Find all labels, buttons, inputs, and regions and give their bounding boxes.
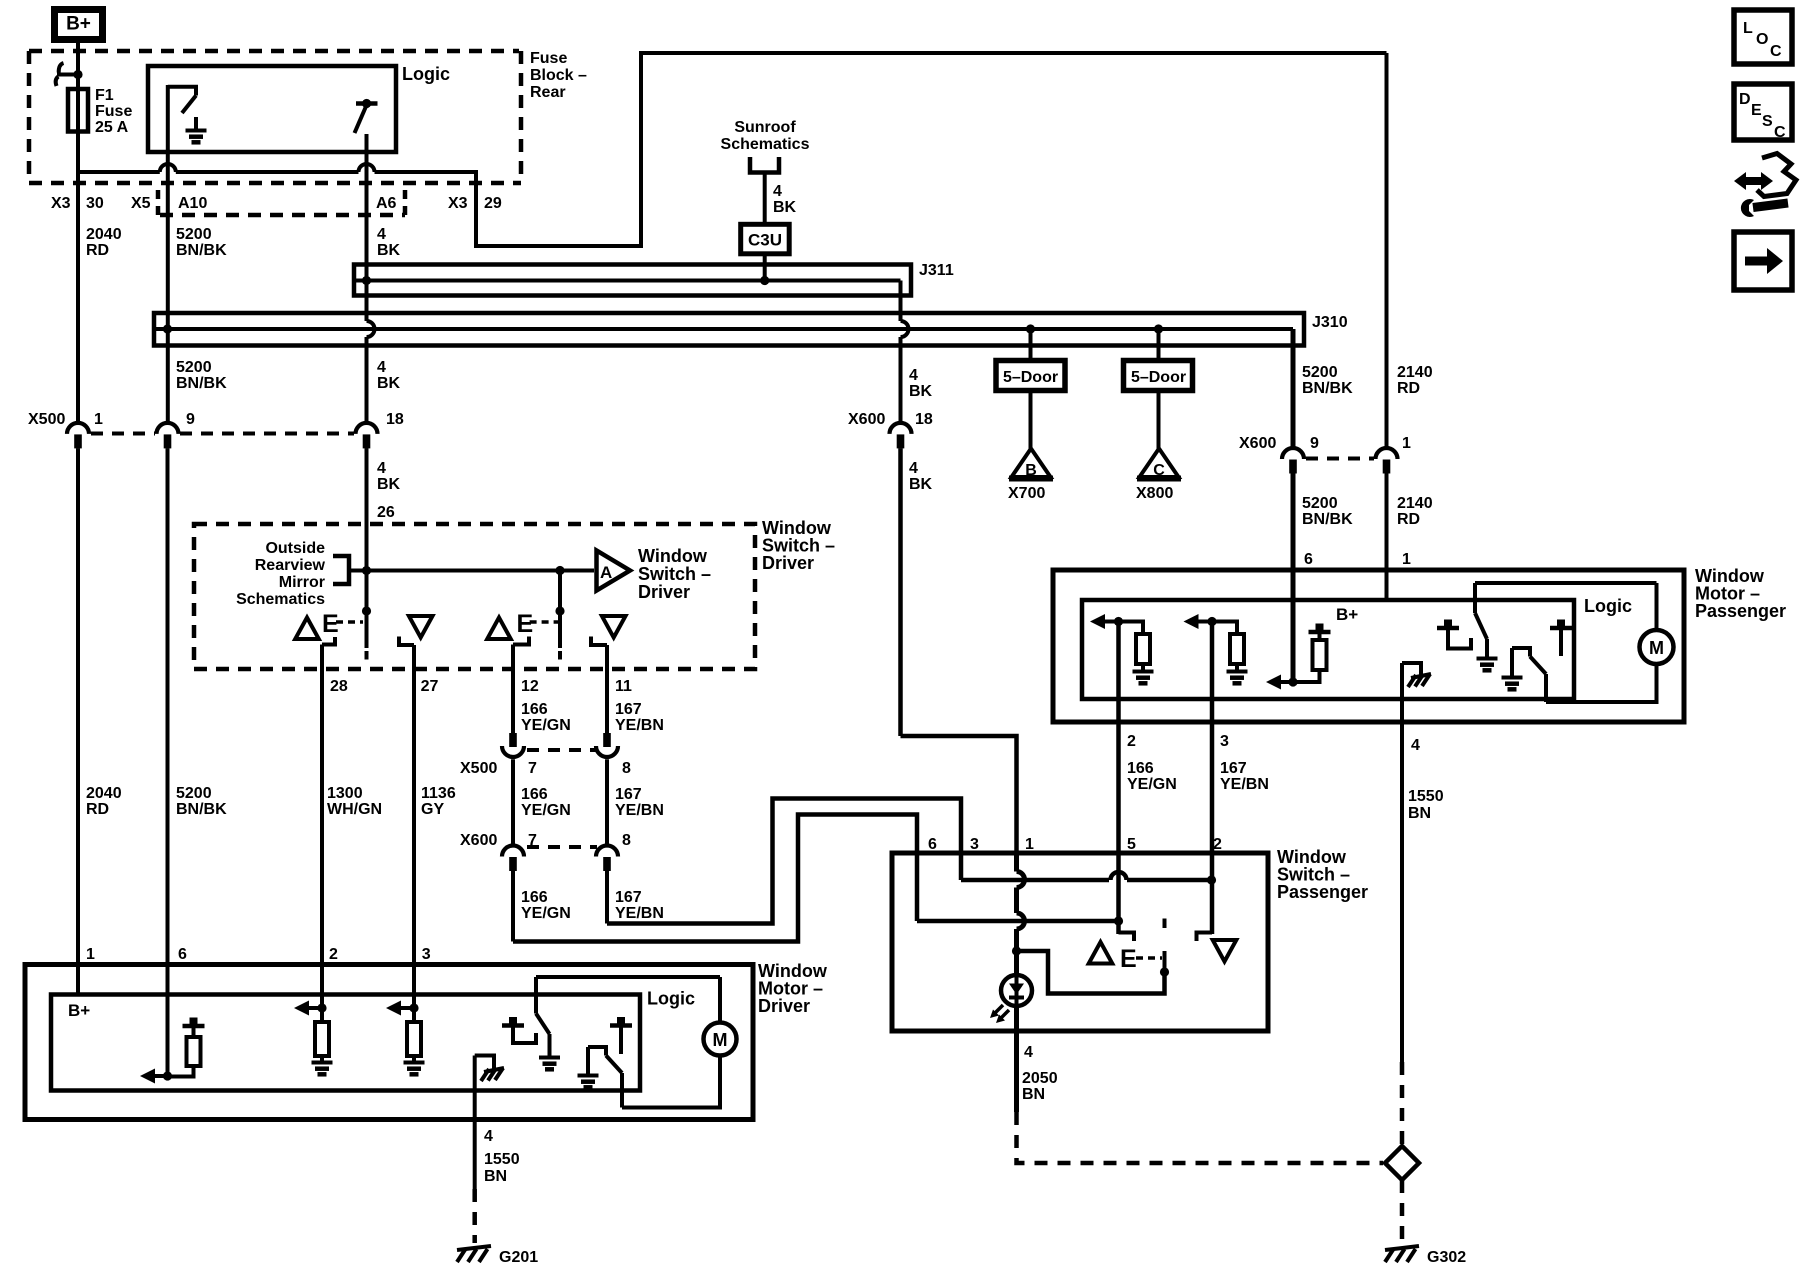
- svg-text:C: C: [1774, 124, 1786, 141]
- svg-text:Logic: Logic: [402, 64, 450, 84]
- svg-text:X500: X500: [28, 411, 65, 428]
- svg-text:2140: 2140: [1397, 495, 1433, 512]
- svg-text:166: 166: [521, 786, 548, 803]
- svg-text:Logic: Logic: [647, 989, 695, 1009]
- svg-text:BN/BK: BN/BK: [176, 801, 227, 818]
- svg-text:9: 9: [1310, 435, 1319, 452]
- svg-text:26: 26: [377, 504, 395, 521]
- svg-text:BN/BK: BN/BK: [176, 242, 227, 259]
- svg-text:3: 3: [970, 836, 979, 853]
- svg-text:6: 6: [928, 836, 937, 853]
- svg-text:2: 2: [1213, 836, 1222, 853]
- svg-text:E: E: [322, 610, 339, 638]
- svg-text:5200: 5200: [176, 226, 212, 243]
- svg-text:1550: 1550: [1408, 788, 1444, 805]
- svg-text:Passenger: Passenger: [1277, 882, 1368, 902]
- svg-text:A10: A10: [178, 195, 207, 212]
- svg-text:1: 1: [86, 946, 95, 963]
- svg-text:O: O: [1756, 31, 1768, 48]
- svg-text:166: 166: [1127, 760, 1154, 777]
- svg-text:166: 166: [521, 701, 548, 718]
- svg-text:YE/BN: YE/BN: [1220, 776, 1269, 793]
- svg-text:RD: RD: [1397, 511, 1420, 528]
- svg-text:X600: X600: [1239, 435, 1276, 452]
- svg-text:GY: GY: [421, 801, 444, 818]
- svg-text:J310: J310: [1312, 314, 1348, 331]
- svg-text:YE/GN: YE/GN: [521, 905, 571, 922]
- svg-text:Window: Window: [638, 546, 708, 566]
- svg-text:6: 6: [178, 946, 187, 963]
- svg-text:BK: BK: [909, 383, 933, 400]
- svg-text:Rear: Rear: [530, 84, 566, 101]
- svg-text:Driver: Driver: [762, 553, 814, 573]
- svg-text:YE/GN: YE/GN: [521, 802, 571, 819]
- svg-text:BN/BK: BN/BK: [1302, 380, 1353, 397]
- svg-text:8: 8: [622, 760, 631, 777]
- svg-text:Driver: Driver: [638, 582, 690, 602]
- svg-text:A6: A6: [376, 195, 397, 212]
- svg-text:1300: 1300: [327, 785, 363, 802]
- svg-text:X600: X600: [460, 832, 497, 849]
- svg-text:Driver: Driver: [758, 996, 810, 1016]
- svg-text:4: 4: [773, 183, 782, 200]
- svg-text:S: S: [1762, 113, 1773, 130]
- svg-text:BK: BK: [773, 199, 797, 216]
- svg-text:B+: B+: [68, 1001, 90, 1020]
- svg-text:8: 8: [622, 832, 631, 849]
- svg-text:4: 4: [377, 226, 386, 243]
- svg-text:5200: 5200: [176, 359, 212, 376]
- svg-text:166: 166: [521, 889, 548, 906]
- svg-text:5: 5: [1127, 836, 1136, 853]
- svg-text:4: 4: [377, 460, 386, 477]
- svg-text:1: 1: [94, 411, 103, 428]
- svg-text:2050: 2050: [1022, 1070, 1058, 1087]
- svg-text:YE/BN: YE/BN: [615, 717, 664, 734]
- svg-text:9: 9: [186, 411, 195, 428]
- svg-text:G201: G201: [499, 1249, 538, 1266]
- svg-text:5–Door: 5–Door: [1003, 369, 1058, 386]
- svg-text:C: C: [1153, 462, 1165, 479]
- svg-text:18: 18: [915, 411, 933, 428]
- svg-text:RD: RD: [86, 242, 109, 259]
- svg-text:BN: BN: [1408, 805, 1431, 822]
- svg-text:C: C: [1770, 43, 1782, 60]
- svg-text:G302: G302: [1427, 1249, 1466, 1266]
- svg-text:4: 4: [377, 359, 386, 376]
- svg-text:3: 3: [1220, 733, 1229, 750]
- svg-text:29: 29: [484, 195, 502, 212]
- svg-text:1550: 1550: [484, 1151, 520, 1168]
- svg-text:X5: X5: [131, 195, 151, 212]
- svg-text:X3: X3: [448, 195, 468, 212]
- svg-text:B+: B+: [1336, 605, 1358, 624]
- svg-text:Logic: Logic: [1584, 596, 1632, 616]
- svg-text:2: 2: [1127, 733, 1136, 750]
- svg-text:1: 1: [1025, 836, 1034, 853]
- svg-text:B: B: [1025, 462, 1037, 479]
- svg-text:C3U: C3U: [748, 231, 782, 250]
- svg-text:2040: 2040: [86, 226, 122, 243]
- svg-text:BN/BK: BN/BK: [176, 375, 227, 392]
- svg-text:5200: 5200: [1302, 364, 1338, 381]
- svg-text:12: 12: [521, 678, 539, 695]
- svg-text:E: E: [517, 610, 534, 638]
- svg-text:Fuse: Fuse: [530, 50, 567, 67]
- svg-text:RD: RD: [86, 801, 109, 818]
- svg-text:X600: X600: [848, 411, 885, 428]
- svg-text:YE/BN: YE/BN: [615, 905, 664, 922]
- svg-text:5200: 5200: [176, 785, 212, 802]
- svg-text:30: 30: [86, 195, 104, 212]
- svg-text:27: 27: [421, 678, 439, 695]
- svg-text:167: 167: [615, 701, 642, 718]
- svg-text:Fuse: Fuse: [95, 103, 132, 120]
- svg-text:4: 4: [1411, 737, 1420, 754]
- svg-text:6: 6: [1304, 551, 1313, 568]
- svg-text:167: 167: [615, 889, 642, 906]
- svg-text:5200: 5200: [1302, 495, 1338, 512]
- svg-text:1: 1: [1402, 551, 1411, 568]
- svg-text:Switch –: Switch –: [638, 564, 711, 584]
- svg-text:Schematics: Schematics: [721, 136, 810, 153]
- svg-text:BN/BK: BN/BK: [1302, 511, 1353, 528]
- svg-text:A: A: [600, 563, 612, 582]
- svg-text:Sunroof: Sunroof: [734, 119, 796, 136]
- svg-text:BN: BN: [1022, 1086, 1045, 1103]
- svg-text:X500: X500: [460, 760, 497, 777]
- svg-text:BK: BK: [909, 476, 933, 493]
- svg-text:Mirror: Mirror: [279, 574, 325, 591]
- svg-text:25 A: 25 A: [95, 119, 129, 136]
- svg-text:1: 1: [1402, 435, 1411, 452]
- svg-text:18: 18: [386, 411, 404, 428]
- svg-text:167: 167: [1220, 760, 1247, 777]
- svg-text:M: M: [713, 1030, 728, 1050]
- svg-text:11: 11: [615, 678, 632, 695]
- svg-text:Block –: Block –: [530, 67, 587, 84]
- svg-text:BK: BK: [377, 375, 401, 392]
- svg-text:Rearview: Rearview: [255, 557, 326, 574]
- svg-text:2040: 2040: [86, 785, 122, 802]
- svg-text:Passenger: Passenger: [1695, 601, 1786, 621]
- svg-text:RD: RD: [1397, 380, 1420, 397]
- svg-text:X800: X800: [1136, 485, 1173, 502]
- svg-text:BN: BN: [484, 1168, 507, 1185]
- svg-text:7: 7: [528, 760, 537, 777]
- svg-text:X700: X700: [1008, 485, 1045, 502]
- svg-text:B+: B+: [66, 14, 91, 35]
- svg-text:4: 4: [909, 460, 918, 477]
- svg-text:BK: BK: [377, 242, 401, 259]
- svg-text:Outside: Outside: [265, 540, 325, 557]
- svg-text:L: L: [1743, 20, 1753, 37]
- svg-text:2140: 2140: [1397, 364, 1433, 381]
- svg-text:2: 2: [329, 946, 338, 963]
- svg-text:167: 167: [615, 786, 642, 803]
- svg-text:X3: X3: [51, 195, 71, 212]
- svg-text:3: 3: [422, 946, 431, 963]
- svg-text:J311: J311: [919, 262, 954, 279]
- svg-text:YE/GN: YE/GN: [521, 717, 571, 734]
- svg-text:M: M: [1649, 638, 1664, 658]
- svg-text:WH/GN: WH/GN: [327, 801, 382, 818]
- svg-text:5–Door: 5–Door: [1131, 369, 1186, 386]
- svg-text:E: E: [1120, 945, 1137, 973]
- svg-text:1136: 1136: [421, 785, 456, 802]
- svg-text:E: E: [1751, 102, 1762, 119]
- svg-text:4: 4: [909, 367, 918, 384]
- svg-text:Schematics: Schematics: [236, 591, 325, 608]
- svg-text:F1: F1: [95, 87, 114, 104]
- svg-text:4: 4: [484, 1128, 493, 1145]
- svg-text:4: 4: [1024, 1044, 1033, 1061]
- svg-text:YE/GN: YE/GN: [1127, 776, 1177, 793]
- svg-text:YE/BN: YE/BN: [615, 802, 664, 819]
- svg-text:BK: BK: [377, 476, 401, 493]
- svg-text:D: D: [1739, 91, 1751, 108]
- svg-text:28: 28: [330, 678, 348, 695]
